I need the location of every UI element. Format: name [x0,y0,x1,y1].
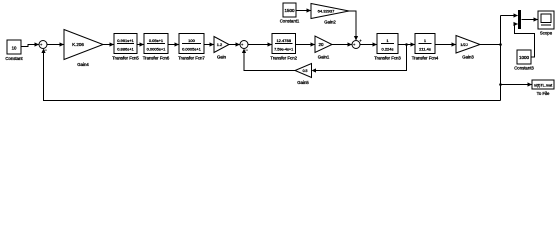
gain Gain3 (1/2J) [456,36,480,60]
svg-text:1500: 1500 [284,8,295,13]
transfer function Transfer Fcn6 [143,34,170,61]
svg-text:To File: To File [537,91,550,96]
wire Constant to Sum1 [21,42,39,46]
svg-text:Constant3: Constant3 [514,66,534,71]
wire Gain1 to Sum3 [332,42,352,46]
svg-text:Scope: Scope [540,31,553,36]
svg-text:Gain2: Gain2 [324,20,336,25]
wire Transfer Fcn3 to Transfer Fcn4 with branch node [398,42,415,46]
constant block Constant (value 10) [5,40,23,61]
svg-text:0.05s+1: 0.05s+1 [149,38,164,43]
svg-text:1000: 1000 [519,55,530,60]
svg-text:20: 20 [318,42,324,47]
svg-text:Transfer Fcn5: Transfer Fcn5 [112,56,139,61]
svg-text:Transfer Fcn6: Transfer Fcn6 [143,56,170,61]
wire Gain4 to Transfer Fcn5 [103,42,114,46]
sum junction Sum3 [352,38,362,49]
svg-text:64.32937: 64.32937 [318,9,335,14]
svg-text:211.4s: 211.4s [419,47,431,52]
svg-text:0.0005s+1: 0.0005s+1 [147,47,167,52]
svg-text:0.0005s+1: 0.0005s+1 [182,47,202,52]
wire Transfer Fcn5 to Transfer Fcn6 [137,42,144,46]
svg-text:−: − [245,48,248,53]
wire trunk to To File [499,82,532,86]
wire inner feedback from node to Gain5 [312,45,407,73]
scope Scope [538,11,554,36]
wire Sum3 to Transfer Fcn3 [360,42,377,46]
wire Transfer Fcn6 to Transfer Fcn7 [168,42,179,46]
svg-text:Constant: Constant [5,56,23,61]
gain Gain4 (K.206) [64,30,103,68]
svg-text:12.4788: 12.4788 [276,38,291,43]
transfer function Transfer Fcn3 (1/0.224s) [374,34,401,61]
svg-text:K.206: K.206 [72,42,84,47]
svg-text:Transfer Fcn4: Transfer Fcn4 [412,56,439,61]
transfer function Transfer Fcn4 (1/211.4s) [412,34,439,61]
svg-text:Constant1: Constant1 [280,19,300,24]
wire Gain3 to trunk node [480,43,502,46]
svg-text:ni(t)TL.mat: ni(t)TL.mat [534,84,553,88]
wire Transfer Fcn4 to Gain3 [435,42,456,46]
sum junction Sum1 [39,41,47,53]
svg-text:Gain1: Gain1 [318,55,330,60]
svg-text:10: 10 [12,46,17,51]
svg-text:7.59e-4s+1: 7.59e-4s+1 [274,48,293,52]
wire trunk to Mux upper input [501,13,519,17]
svg-text:0.886s+1: 0.886s+1 [117,47,134,52]
gain Gain2 (64.32937) [311,4,349,25]
svg-text:Gain3: Gain3 [462,55,474,60]
transfer function Transfer Fcn5 [112,34,139,61]
gain Gain5 (left pointing) [295,64,312,86]
to-file block To File [532,80,554,96]
svg-text:Transfer Fcn2: Transfer Fcn2 [270,56,297,61]
svg-text:0.224s: 0.224s [381,47,393,52]
mux Mux [518,10,521,29]
transfer function Transfer Fcn2 (12.4788/(7.59e-4s+1)) [270,34,297,61]
svg-text:1.2: 1.2 [217,42,223,47]
svg-text:Gain: Gain [217,55,227,60]
svg-text:0.5: 0.5 [303,69,308,73]
gain Gain (1.2) [214,37,229,60]
constant block Constant1 (value 1500) [280,3,300,24]
svg-text:Gain4: Gain4 [77,62,89,67]
wire Mux to Scope [522,17,539,21]
wire bottom feedback to Sum1 [41,49,500,101]
wire Sum1 to Gain4 [47,42,64,46]
svg-text:100: 100 [188,38,195,43]
wire Constant3 to Mux lower input [514,22,535,57]
wire Constant1 to Gain2 [296,8,311,12]
transfer function Transfer Fcn7 (100/(0.0005s+1)) [178,34,205,61]
sum junction Sum2 [240,41,248,53]
wire Transfer Fcn7 to Gain [204,42,214,46]
svg-text:Transfer Fcn7: Transfer Fcn7 [178,56,205,61]
wire Gain5 to Sum2 (up into bottom) [242,49,295,71]
gain Gain1 (20) [315,36,332,60]
wire Gain to Sum2 [229,42,240,46]
svg-text:Transfer Fcn3: Transfer Fcn3 [374,56,401,61]
svg-text:0.961s+1: 0.961s+1 [117,38,134,43]
svg-text:1/2J: 1/2J [460,42,468,47]
wire Sum2 to Transfer Fcn2 [248,42,272,46]
wire trunk vertical [500,16,502,101]
constant block Constant3 (value 1000) [514,50,534,71]
wire Transfer Fcn2 to Gain1 [296,42,316,46]
wire Gain2 to Sum3 (down into top) [349,11,358,41]
svg-text:Gain5: Gain5 [297,80,309,85]
